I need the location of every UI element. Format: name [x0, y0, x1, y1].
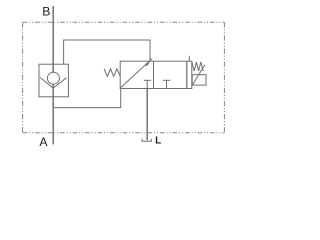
enclosure dashed border right — [223, 22, 225, 133]
port A label — [39, 135, 48, 149]
check valve CV1 body — [39, 64, 68, 97]
svg-text:L: L — [155, 136, 161, 147]
port L label — [155, 136, 161, 147]
wire: pilot line from check valve top to valve top port — [64, 40, 150, 64]
valve V1 armature end plate — [187, 61, 192, 88]
enclosure dashed border left — [22, 22, 24, 133]
wire: main vertical line from port B to port A — [52, 6, 54, 144]
wire: branch from valve bottom-left port down and left to A line — [53, 88, 121, 107]
check valve CV1 seat (V) — [40, 78, 66, 89]
port L tank bracket — [142, 139, 151, 142]
svg-text:B: B — [42, 5, 50, 19]
wire: drain line from valve down through enclosure to port L — [146, 88, 148, 140]
check valve CV1 poppet ball — [47, 72, 59, 84]
valve V1 return spring (left) — [104, 69, 120, 77]
solenoid coil box — [192, 75, 206, 85]
directional valve V1 body (two positions) — [120, 61, 187, 88]
valve V1 solenoid spring (right, above solenoid) — [192, 62, 203, 71]
valve V1 left position flow path arrow — [121, 59, 152, 88]
port B label — [42, 5, 50, 19]
enclosure dashed border bottom — [23, 132, 225, 134]
enclosure dashed border top — [23, 21, 225, 23]
svg-text:A: A — [39, 135, 48, 149]
valve V1 right position blocked port T — [163, 80, 170, 88]
solenoid coil diagonal — [192, 65, 204, 85]
valve V1 vent stub on armature — [188, 56, 190, 61]
valve V1 left position blocked port T — [144, 80, 151, 88]
